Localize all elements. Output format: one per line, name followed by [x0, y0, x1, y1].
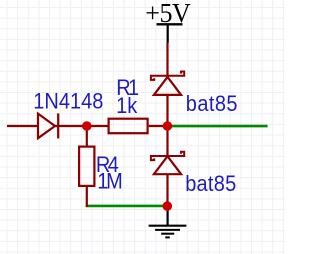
wire D3 anode to ground node — [166, 174, 168, 206]
ground bar 1 — [149, 225, 187, 227]
schottky diode D2 bat85 (top) — [151, 72, 184, 95]
ground bar 3 — [161, 233, 174, 235]
junction ground node — [163, 201, 173, 211]
junction node A — [82, 121, 92, 131]
wire input (left) — [7, 125, 38, 127]
wire node A down to R4 — [86, 126, 88, 146]
ground bar 2 — [155, 229, 180, 231]
svg-text:bat85: bat85 — [185, 172, 236, 196]
power +5V rail bar — [157, 23, 183, 25]
wire node B to D3 — [166, 126, 168, 156]
ground bar 4 — [165, 236, 170, 238]
wire R4 bottom lead — [86, 187, 88, 207]
resistor R1 — [109, 119, 148, 134]
wire D2 anode to node B — [166, 95, 168, 126]
wire D1 cathode to node A — [55, 125, 108, 127]
schottky diode D3 bat85 (bottom) — [151, 152, 184, 175]
svg-text:1k: 1k — [116, 94, 137, 118]
resistor R4 — [79, 147, 94, 186]
power +5V stub — [167, 24, 169, 42]
svg-text:bat85: bat85 — [186, 92, 238, 116]
junction node B — [163, 121, 173, 131]
svg-text:1N4148: 1N4148 — [33, 89, 103, 113]
wire R1 to node B — [149, 125, 168, 127]
diode D1 1N4148 — [38, 113, 58, 138]
wire output net (green) — [170, 125, 268, 128]
wire +5V to D2 — [166, 43, 168, 78]
svg-text:1M: 1M — [97, 170, 123, 194]
ground stub — [167, 206, 169, 226]
wire R4 bottom green return — [86, 205, 168, 208]
